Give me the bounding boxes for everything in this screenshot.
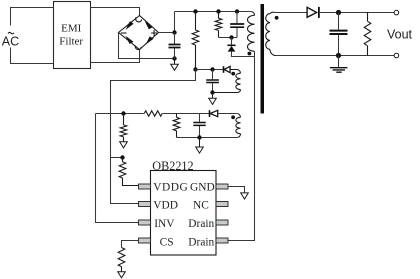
svg-text:NC: NC (193, 200, 209, 212)
AC source (2, 32, 19, 48)
ground (divider) (120, 142, 128, 148)
transformer core (261, 4, 265, 114)
node INV divider (121, 111, 125, 115)
wire GND pin (228, 187, 244, 193)
resistor VDDG R4 (119, 158, 139, 186)
pin 6 Drain (216, 220, 228, 225)
wire row1 (196, 69, 224, 71)
wire EMI to bridge top (91, 8, 140, 16)
wire AC top lead (11, 8, 54, 26)
wire VDD hook (111, 70, 196, 204)
resistor sense R7 (118, 248, 125, 272)
svg-text:Drain: Drain (188, 237, 214, 249)
wire secondary top to output diode (275, 12, 307, 14)
wire row2 (162, 113, 209, 115)
pin 1 VDDG (139, 184, 151, 189)
svg-text:GND: GND (190, 181, 215, 193)
diode output D6 (307, 7, 319, 18)
transformer aux winding 2 (231, 114, 240, 138)
wire drain (228, 51, 254, 240)
terminal Vout minus (394, 53, 399, 58)
wire feedback row W1 (96, 113, 144, 115)
pin 8 GND (216, 184, 228, 189)
capacitor VDD C4 (206, 70, 219, 93)
capacitor output C5 (330, 13, 348, 56)
capacitor snubber C2 (230, 12, 244, 38)
pin 2 VDD (139, 202, 151, 207)
wire AC bottom lead (11, 48, 54, 64)
bridge rectifier BR1 (119, 16, 159, 50)
capacitor filter C3 (193, 114, 205, 138)
pin 7 NC (216, 202, 228, 207)
resistor snubber R2 (215, 12, 222, 38)
svg-text:VDDG: VDDG (153, 181, 188, 193)
resistor load R8 (364, 13, 371, 56)
wire secondary bottom rail (276, 55, 394, 57)
wire CS (122, 241, 140, 248)
capacitor bulk (169, 33, 181, 59)
EMI filter block (54, 2, 91, 69)
wire output top rail (319, 12, 394, 14)
pin 4 CS (139, 238, 151, 243)
node VDD cap top (210, 67, 214, 71)
ground (CS sense) (118, 272, 126, 278)
node bulk cap bottom (172, 56, 176, 60)
wire main DC rail (175, 11, 251, 13)
node row2 ground (197, 135, 201, 139)
svg-text:CS: CS (160, 237, 174, 249)
node output cap top (336, 10, 341, 15)
pin 3 INV (139, 220, 151, 225)
svg-text:EMI: EMI (61, 23, 82, 35)
ground (IC GND) (241, 193, 249, 199)
svg-text:VDD: VDD (153, 200, 178, 212)
resistor divider-lower R5 (120, 114, 127, 142)
node bridge output (172, 30, 176, 34)
node snubber diode tap (229, 35, 233, 39)
node VDD cap bottom (210, 90, 214, 94)
resistor filter R3 (173, 114, 180, 138)
diode aux2 D2 (210, 110, 237, 117)
node rail startup (193, 9, 197, 13)
node rail snubber C (235, 9, 239, 13)
wire INV feedback drop (96, 114, 140, 223)
ground (VDD cap) (209, 93, 217, 105)
diode snubber D5 (227, 38, 254, 57)
svg-text:INV: INV (154, 218, 175, 230)
wire EMI to bridge bottom (91, 50, 140, 63)
node VDDG branch (120, 155, 124, 159)
transformer T1 secondary winding (266, 12, 279, 55)
ground (row2 filter) (196, 138, 204, 154)
node N1 aux supply (193, 67, 197, 71)
svg-text:Drain: Drain (188, 218, 214, 230)
svg-text:Vout: Vout (387, 27, 413, 41)
wire VDDG branch (111, 157, 123, 159)
transformer T1 primary winding (248, 12, 255, 56)
wire row2 ground bus (177, 137, 238, 139)
node rail snubber R (216, 9, 220, 13)
resistor startup R1 (192, 12, 199, 70)
IC U1 OB2212 (139, 159, 229, 255)
terminal Vout plus (394, 10, 399, 15)
node output cap bottom (336, 53, 341, 58)
wire DC minus from bridge left vertex (119, 33, 175, 59)
earth ground output (330, 56, 348, 73)
wire DC plus from bridge right vertex (159, 12, 175, 33)
transformer aux winding 1 (213, 70, 241, 93)
svg-text:Filter: Filter (59, 35, 83, 47)
ground (bulk cap) (171, 59, 179, 71)
wire snubber bottom (219, 37, 238, 39)
diode aux1 D1 (224, 66, 231, 73)
resistor feedback R6 (144, 111, 162, 116)
pin 5 Drain (216, 238, 228, 243)
svg-text:AC: AC (2, 35, 19, 49)
